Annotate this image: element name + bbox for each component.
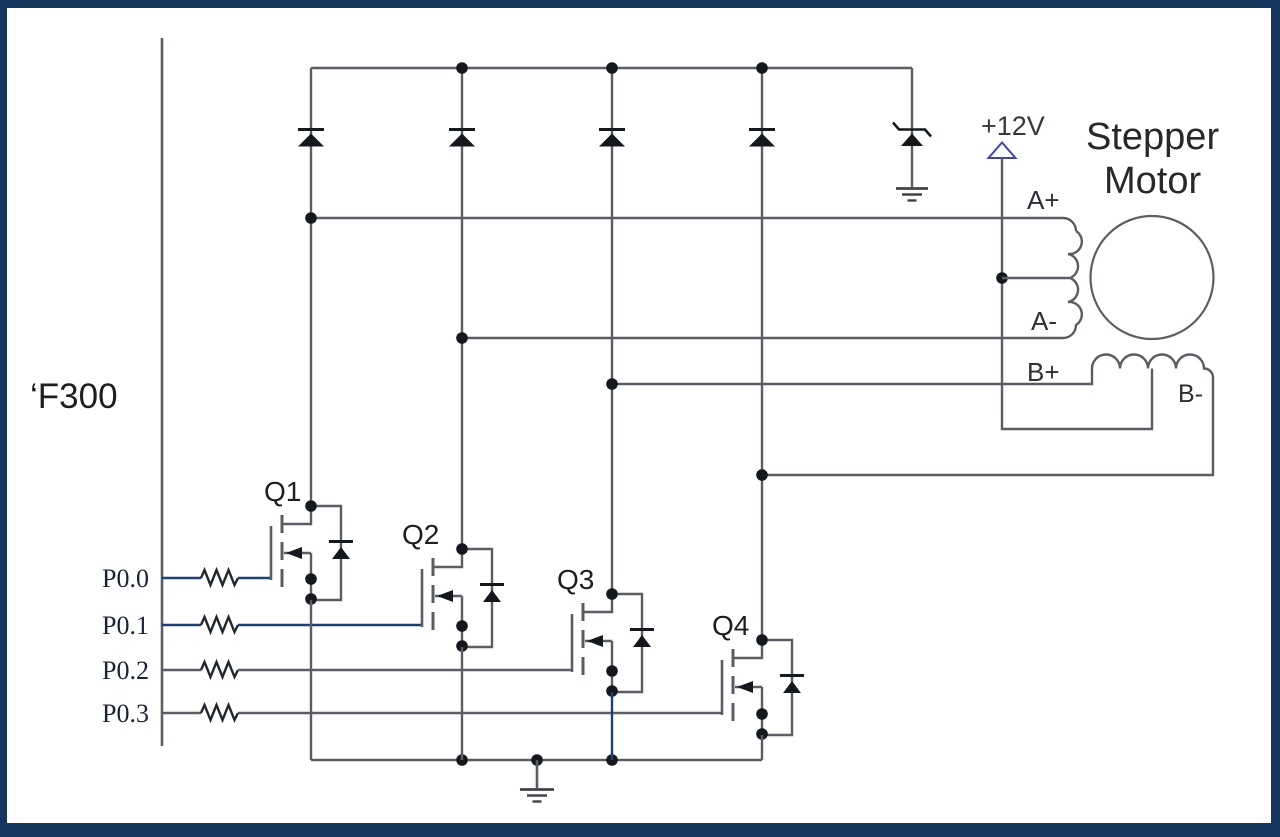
resistor (P0.2 series) bbox=[201, 662, 238, 677]
zener diode D5 bbox=[893, 123, 931, 137]
diode D3 (flyback, column 3) bbox=[599, 128, 625, 131]
diode D1 (flyback, column 1) bbox=[298, 128, 324, 131]
wire: B- return line bbox=[762, 378, 1213, 476]
resistor (P0.0 series) bbox=[201, 570, 238, 585]
svg-text:+12V: +12V bbox=[981, 111, 1045, 141]
ground (zener) bbox=[896, 187, 928, 190]
wire: column 4 (bus to Q4 drain) bbox=[761, 68, 763, 640]
svg-text:P0.2: P0.2 bbox=[102, 656, 149, 685]
node: B- junction on column 4 bbox=[756, 469, 768, 481]
svg-text:Q4: Q4 bbox=[712, 610, 749, 641]
svg-text:B+: B+ bbox=[1027, 357, 1060, 387]
ground (main) bbox=[536, 760, 539, 788]
node: A+ junction on column 1 bbox=[305, 212, 317, 224]
diode D4 (flyback, column 4) bbox=[749, 128, 775, 131]
wire: zener branch bbox=[911, 68, 913, 187]
wire: P0.3 from port to resistor bbox=[162, 712, 201, 714]
node: ground bus junction (ground stem) bbox=[531, 754, 543, 766]
diode D2 (flyback, column 2) bbox=[449, 128, 475, 131]
coil: motor winding B bbox=[1092, 355, 1213, 378]
wire: P0.1 from port to resistor bbox=[162, 624, 201, 626]
node: ground bus junction col2 bbox=[456, 754, 468, 766]
wire: top flyback bus bbox=[311, 67, 912, 69]
svg-text:P0.0: P0.0 bbox=[102, 564, 149, 593]
wire: A- line bbox=[462, 337, 1063, 339]
transistor Q1 bbox=[264, 476, 353, 605]
node: ground bus junction col3 bbox=[606, 754, 618, 766]
stepper motor body bbox=[1091, 216, 1214, 339]
svg-text:Motor: Motor bbox=[1104, 160, 1201, 202]
node: bus junction col2 bbox=[456, 62, 468, 74]
svg-text:Q3: Q3 bbox=[557, 564, 594, 595]
wire: A+ line bbox=[311, 218, 1076, 231]
wire: +12V feed to motor center taps bbox=[1002, 158, 1152, 429]
wire: column 2 (bus to Q2 drain) bbox=[461, 68, 463, 549]
svg-text:A-: A- bbox=[1031, 306, 1057, 336]
wire: column 1 (bus to Q1 drain) bbox=[310, 68, 312, 506]
svg-text:Q1: Q1 bbox=[264, 476, 301, 507]
wire: source/ground bus bbox=[311, 759, 762, 761]
+12V power symbol bbox=[989, 143, 1016, 159]
transistor Q4 bbox=[712, 610, 804, 740]
resistor (P0.3 series) bbox=[201, 705, 238, 720]
'F300 microcontroller boundary line bbox=[161, 38, 164, 746]
wire: P0.2 from port to resistor bbox=[162, 669, 201, 671]
svg-text:P0.3: P0.3 bbox=[102, 699, 149, 728]
transistor Q2 bbox=[402, 519, 504, 652]
svg-text:P0.1: P0.1 bbox=[102, 611, 149, 640]
wire: Q2 source to ground bus bbox=[461, 647, 463, 760]
svg-text:Stepper: Stepper bbox=[1086, 116, 1219, 158]
node: bus junction col3 bbox=[606, 62, 618, 74]
coil: motor winding A (A- half) bbox=[1063, 279, 1082, 339]
wire: P0.3 resistor to Q4 gate bbox=[238, 712, 722, 714]
wire: P0.1 resistor to Q2 gate bbox=[238, 624, 422, 626]
wire: B+ line bbox=[612, 369, 1092, 385]
wire: column 3 (bus to Q3 drain) bbox=[611, 68, 613, 594]
svg-text:Q2: Q2 bbox=[402, 519, 439, 550]
transistor Q3 bbox=[557, 564, 654, 697]
node: bus junction col4 bbox=[756, 62, 768, 74]
wire: P0.0 from port to resistor bbox=[162, 577, 201, 579]
wire: winding A center tap bbox=[1002, 277, 1071, 279]
svg-text:B-: B- bbox=[1178, 380, 1203, 408]
wire: P0.0 resistor to Q1 gate bbox=[238, 577, 271, 579]
coil: motor winding A (A+ half) bbox=[1068, 231, 1082, 278]
node: coil A center tap junction bbox=[996, 272, 1008, 284]
resistor (P0.1 series) bbox=[201, 617, 238, 632]
node: A- junction on column 2 bbox=[456, 332, 468, 344]
wire: Q3 source to ground bus bbox=[611, 692, 613, 760]
svg-text:‘F300: ‘F300 bbox=[30, 377, 118, 416]
wire: Q4 source to ground bus bbox=[761, 735, 763, 760]
node: B+ junction on column 3 bbox=[606, 378, 618, 390]
svg-text:A+: A+ bbox=[1027, 185, 1060, 215]
wire: Q1 source to ground bus bbox=[310, 600, 312, 760]
wire: P0.2 resistor to Q3 gate bbox=[238, 669, 572, 671]
